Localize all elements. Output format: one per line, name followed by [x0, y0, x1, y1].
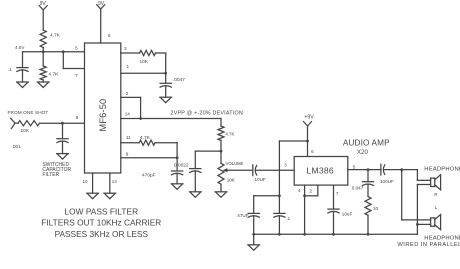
- wire 47UF to rail: [253, 216, 255, 235]
- wire 4.7K to node: [155, 142, 177, 144]
- input arrow (from one shot): [11, 118, 15, 128]
- pot wiper arrow: [223, 168, 228, 172]
- wire R3 to pin 8: [40, 122, 85, 124]
- capacitor .1 (supply): [274, 212, 285, 214]
- wire C2 to ground: [62, 141, 64, 154]
- svg-text:FROM ONE SHOT: FROM ONE SHOT: [8, 110, 49, 115]
- wire pin 3: [121, 52, 140, 54]
- svg-text:WIRED IN PARALLEL: WIRED IN PARALLEL: [397, 242, 460, 248]
- svg-text:4.7K: 4.7K: [49, 71, 60, 77]
- svg-text:VOLUME: VOLUME: [226, 161, 244, 166]
- svg-text:6: 6: [108, 33, 111, 38]
- ground (C4): [189, 191, 201, 193]
- pin 10 stub and ground: [92, 173, 94, 193]
- wire pin 9: [121, 157, 177, 159]
- svg-text:.1: .1: [286, 216, 290, 222]
- wire 4.7K to volume node: [220, 141, 222, 152]
- svg-text:3: 3: [124, 46, 127, 51]
- resistor 4.7K (pin 11): [139, 140, 155, 145]
- wire 10K to corner: [156, 52, 166, 54]
- wire R7 to rail: [367, 215, 369, 234]
- wire to C3: [165, 73, 167, 83]
- svg-text:10K: 10K: [21, 128, 30, 134]
- resistor 10K (input): [18, 121, 40, 126]
- svg-text:L: L: [435, 205, 438, 210]
- wire pot to ground: [220, 184, 222, 192]
- wire ground rail: [254, 233, 418, 235]
- svg-text:7: 7: [75, 73, 78, 78]
- wire +9V branch left: [279, 140, 307, 142]
- svg-text:10uF: 10uF: [342, 212, 353, 217]
- wire pin 2 to pin 14: [121, 96, 141, 98]
- capacitor 100UF (output coupling): [380, 164, 382, 175]
- svg-text:2VPP @ +-20% DEVIATION: 2VPP @ +-20% DEVIATION: [171, 111, 243, 117]
- svg-text:4.7K: 4.7K: [50, 33, 61, 39]
- svg-text:0.0022: 0.0022: [174, 163, 189, 169]
- capacitor 10uF (bypass): [328, 208, 339, 210]
- resistor 4.7K (divider top): [40, 30, 46, 48]
- wire pin 1: [121, 72, 166, 74]
- speaker headphone L: [431, 218, 435, 226]
- capacitor 0.047 (zobel): [362, 181, 373, 183]
- wire C9 to R7: [367, 185, 369, 197]
- wire R2 to ground: [42, 80, 44, 82]
- resistor 10K (clock): [140, 50, 156, 55]
- svg-text:100UF: 100UF: [380, 179, 394, 184]
- wire to headphone L top: [401, 170, 403, 220]
- svg-text:R: R: [434, 192, 438, 197]
- wire headphone R bottom return: [417, 184, 430, 186]
- ground (pot): [215, 191, 227, 193]
- potentiometer 10K VOLUME: [220, 151, 222, 163]
- svg-text:47UF: 47UF: [237, 213, 248, 218]
- svg-text:470pF: 470pF: [142, 172, 156, 178]
- wire input to R3: [15, 122, 18, 124]
- wire branch to C7: [278, 196, 280, 213]
- wire pin 14 output: [121, 118, 221, 120]
- wire pin 7 to C8: [333, 185, 335, 209]
- svg-text:HEADPHONE: HEADPHONE: [424, 166, 460, 172]
- svg-text:10K: 10K: [227, 178, 236, 183]
- ground (C5): [171, 183, 183, 185]
- svg-text:5: 5: [353, 164, 356, 169]
- wire pin 11: [121, 142, 139, 144]
- resistor 10 (zobel): [365, 197, 371, 216]
- wire node to C2: [62, 123, 64, 138]
- wire headphone L bottom return: [417, 223, 430, 225]
- svg-text:7: 7: [336, 191, 339, 196]
- resistor 4.7K (output): [218, 126, 224, 141]
- wire C4 to ground: [194, 171, 196, 192]
- wire pin 2 to pin 4: [317, 185, 319, 196]
- capacitor 47UF (supply): [248, 212, 259, 214]
- wire 9V to R1: [42, 10, 44, 30]
- capacitor 0.0022: [190, 168, 201, 170]
- speaker headphone R: [431, 178, 435, 186]
- wire node to C5: [176, 158, 178, 171]
- capacitor .001: [57, 138, 68, 140]
- wire to headphone R top: [416, 170, 418, 181]
- pin 13 stub and ground: [109, 173, 111, 193]
- wire 4.5V rail: [23, 51, 85, 53]
- svg-text:8: 8: [76, 115, 79, 120]
- svg-text:13: 13: [112, 179, 118, 184]
- svg-text:LOW PASS FILTER: LOW PASS FILTER: [64, 206, 138, 216]
- svg-text:4.5V: 4.5V: [15, 45, 25, 50]
- ground (C3): [160, 96, 172, 98]
- capacitor 470pF: [172, 170, 183, 172]
- wire to C9: [367, 170, 369, 182]
- resistor 4.7K (divider bottom): [40, 66, 46, 80]
- wire +9V down: [307, 126, 309, 141]
- wire R1 to 4.5V node: [42, 48, 44, 52]
- svg-text:10: 10: [373, 206, 379, 211]
- svg-text:FILTERS OUT 10KHz CARRIER: FILTERS OUT 10KHz CARRIER: [41, 218, 161, 228]
- svg-text:6: 6: [311, 149, 314, 154]
- svg-text:5: 5: [75, 46, 78, 51]
- svg-text:4.7K: 4.7K: [225, 131, 234, 136]
- op-amp U2 LM386 audio amp: [294, 157, 348, 186]
- svg-text:4: 4: [298, 188, 301, 193]
- wire pin 4 to ground rail: [304, 196, 306, 235]
- svg-text:FILTER: FILTER: [42, 172, 59, 178]
- svg-text:.1: .1: [8, 67, 12, 73]
- wire node to C4: [195, 150, 221, 152]
- wire node to pin7: [62, 52, 64, 69]
- svg-text:14: 14: [125, 112, 131, 117]
- wire 4.5V node to R2: [42, 52, 44, 66]
- svg-text:MF6-50: MF6-50: [98, 99, 108, 132]
- svg-text:HEADPHONE: HEADPHONE: [424, 235, 460, 241]
- wire C5 to ground: [176, 173, 178, 184]
- svg-text:10UF: 10UF: [255, 177, 266, 182]
- svg-text:10: 10: [82, 179, 88, 184]
- wire 100UF to headphones: [384, 169, 417, 171]
- ground (rail): [248, 244, 260, 246]
- ground (C1): [17, 81, 29, 83]
- wire +9V to pin 6 (U2): [307, 141, 309, 157]
- svg-text:3: 3: [284, 163, 287, 168]
- svg-text:.001: .001: [12, 144, 22, 150]
- wire 9V to pin 6 (U1): [100, 9, 102, 43]
- svg-text:1: 1: [126, 64, 129, 69]
- wire pin 4 down: [304, 185, 306, 196]
- wire pin 5 output: [348, 169, 381, 171]
- svg-text:LM386: LM386: [307, 165, 334, 175]
- capacitor 10UF (coupling): [252, 165, 254, 176]
- wire output corner down: [220, 119, 222, 127]
- ground (C2): [57, 153, 69, 155]
- wire C8 to rail: [333, 211, 335, 234]
- svg-text:9: 9: [126, 152, 129, 157]
- wire 10UF to pin 3 (U2): [256, 169, 295, 171]
- svg-text:0.047: 0.047: [352, 185, 364, 190]
- wire C1 to ground: [22, 70, 24, 82]
- svg-text:10K: 10K: [140, 59, 149, 65]
- wire C3 to ground: [165, 86, 167, 98]
- svg-text:X20: X20: [357, 149, 369, 156]
- capacitor .1 (bias bypass): [17, 67, 28, 69]
- op-amp U1 MF6-50 switched-capacitor filter: [85, 43, 121, 173]
- svg-text:4.7K: 4.7K: [140, 135, 151, 141]
- svg-text:PASSES 3KHz OR LESS: PASSES 3KHz OR LESS: [55, 229, 149, 239]
- svg-text:2: 2: [309, 189, 312, 194]
- svg-text:AUDIO AMP: AUDIO AMP: [343, 139, 390, 148]
- wire branch to 47UF: [254, 195, 280, 197]
- ground (R2): [37, 81, 49, 83]
- wire to C1: [22, 52, 24, 68]
- svg-text:+9V: +9V: [304, 115, 314, 121]
- capacitor .0047: [160, 82, 171, 84]
- wire C7 to rail: [278, 216, 280, 235]
- wire rail to ground: [253, 234, 255, 245]
- svg-text:11: 11: [126, 135, 131, 140]
- svg-text:2: 2: [126, 91, 129, 96]
- svg-text:.0047: .0047: [173, 77, 185, 83]
